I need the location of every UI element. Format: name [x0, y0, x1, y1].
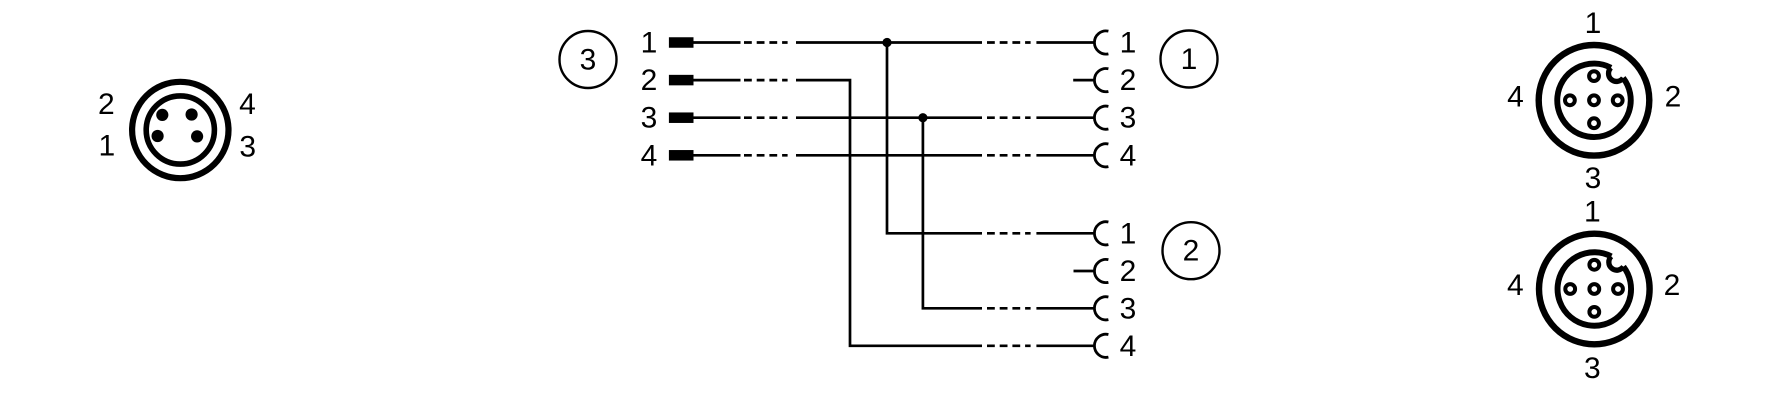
svg-text:2: 2 [1120, 255, 1137, 288]
connector identifier circle 1 [1161, 31, 1218, 88]
svg-text:4: 4 [239, 88, 256, 121]
wire pin3 dashed segment b [987, 116, 1031, 119]
svg-text:4: 4 [1507, 269, 1524, 302]
svg-text:2: 2 [1664, 269, 1681, 302]
socket contact arc connector1 pin4 [1094, 144, 1108, 167]
wire connector2 pin1 dashed segment [987, 232, 1031, 235]
svg-text:4: 4 [1120, 139, 1137, 172]
connector 2 face center contact [1589, 284, 1599, 294]
connector 2 face pin 1 contact [1589, 260, 1599, 270]
svg-text:1: 1 [1120, 27, 1137, 60]
svg-text:2: 2 [1120, 64, 1137, 97]
svg-text:2: 2 [1665, 81, 1682, 114]
connector 3 pin 3 terminal [669, 112, 694, 123]
svg-text:1: 1 [641, 27, 658, 60]
socket contact arc connector2 pin2 [1094, 259, 1108, 282]
wire pin3 solid segment b [796, 116, 982, 119]
junction dot wire1 [882, 38, 891, 47]
connector 3 pin 1 terminal [669, 37, 694, 48]
wire pin4 dashed segment b [987, 154, 1031, 157]
connector 2 face pin 4 contact [1565, 284, 1575, 294]
socket contact arc connector1 pin3 [1094, 106, 1108, 129]
branch wire from junction3 down to connector2 pin3 [923, 118, 982, 309]
svg-text:1: 1 [1181, 43, 1198, 76]
socket contact arc connector2 pin3 [1094, 297, 1108, 320]
wire pin4 solid segment c [1036, 154, 1094, 157]
wire connector2 pin4 solid segment [1036, 344, 1094, 347]
wire connector2 pin3 dashed segment [987, 307, 1031, 310]
wire pin3 solid segment c [1036, 116, 1094, 119]
svg-text:1: 1 [98, 130, 115, 163]
svg-text:3: 3 [1120, 102, 1137, 135]
connector identifier circle 3 [560, 31, 617, 88]
connector 1 face pin 3 contact [1589, 118, 1599, 128]
socket contact arc connector1 pin2 [1094, 68, 1108, 91]
junction dot wire3 [918, 113, 927, 122]
wire pin4 solid segment b [796, 154, 982, 157]
connector 3 face outer shell [132, 82, 228, 178]
connector 1 face inner ring with keyway notch [1557, 64, 1630, 137]
svg-text:3: 3 [641, 102, 658, 135]
socket contact arc connector2 pin4 [1094, 334, 1108, 357]
stub wire connector2 pin2 [1074, 270, 1095, 273]
wire pin3 dashed segment a [744, 116, 788, 119]
svg-text:3: 3 [239, 131, 256, 164]
svg-text:2: 2 [641, 64, 658, 97]
connector 1 face outer shell [1539, 45, 1650, 156]
connector 3 pin 4 terminal [669, 150, 694, 161]
connector 3 pin 2 terminal [669, 75, 694, 86]
svg-text:1: 1 [1584, 196, 1601, 229]
connector 3 face pin 4 contact [186, 108, 198, 120]
connector 1 face center contact [1589, 95, 1599, 105]
wire pin4 solid segment a [694, 154, 741, 157]
wire connector2 pin3 solid segment [1036, 307, 1094, 310]
connector 1 face pin 2 contact [1613, 95, 1623, 105]
connector 1 face pin 1 contact [1589, 71, 1599, 81]
stub wire connector1 pin2 [1073, 79, 1094, 82]
wire pin2 dashed segment a [744, 79, 788, 82]
connector 3 face pin 3 contact [191, 130, 203, 142]
svg-text:2: 2 [98, 88, 115, 121]
wire pin4 dashed segment a [744, 154, 788, 157]
svg-text:1: 1 [1120, 217, 1137, 250]
wire pin3 solid segment a [694, 116, 741, 119]
connector 1 face pin 4 contact [1565, 95, 1575, 105]
connector identifier circle 2 [1163, 222, 1220, 279]
svg-text:1: 1 [1585, 7, 1602, 40]
svg-text:2: 2 [1183, 235, 1200, 268]
wire pin1 solid segment a [694, 41, 741, 44]
branch wire from junction1 down to connector2 pin1 [887, 43, 982, 234]
connector 2 face pin 3 contact [1589, 307, 1599, 317]
wire pin2 bend down to connector2 pin4 [796, 80, 982, 346]
connector 2 face outer shell [1539, 234, 1650, 345]
wire pin1 dashed segment a [744, 41, 788, 44]
connector 3 face pin 1 contact [152, 130, 164, 142]
svg-text:4: 4 [1120, 330, 1137, 363]
svg-text:3: 3 [1120, 292, 1137, 325]
socket contact arc connector2 pin1 [1094, 222, 1108, 245]
svg-text:4: 4 [1507, 81, 1524, 114]
svg-text:3: 3 [1585, 162, 1602, 195]
connector 2 face inner ring with keyway notch [1558, 252, 1631, 326]
wire connector2 pin1 solid segment [1036, 232, 1094, 235]
socket contact arc connector1 pin1 [1094, 31, 1108, 54]
wire pin1 solid segment c [1036, 41, 1094, 44]
svg-text:4: 4 [641, 139, 658, 172]
connector 3 face pin 2 contact [156, 109, 168, 121]
wire pin1 dashed segment b [987, 41, 1031, 44]
wire connector2 pin4 dashed segment [987, 344, 1031, 347]
connector 3 face inner ring [146, 96, 214, 164]
svg-text:3: 3 [580, 44, 597, 77]
wire pin1 solid segment b [796, 41, 982, 44]
svg-text:3: 3 [1584, 352, 1601, 385]
wire pin2 solid segment a [694, 79, 741, 82]
connector 2 face pin 2 contact [1613, 284, 1623, 294]
